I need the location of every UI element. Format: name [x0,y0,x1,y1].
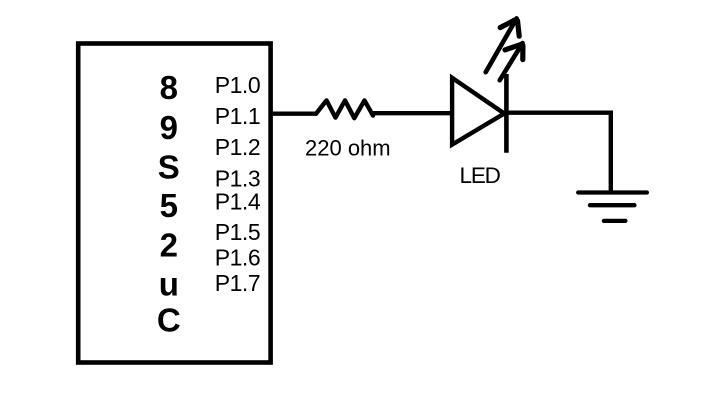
svg-text:S: S [158,148,180,185]
pin label P1.6 [215,245,260,271]
pin label P1.4 [215,189,261,215]
LED D1 anode triangle [452,78,504,145]
svg-text:P1.0: P1.0 [215,72,260,98]
LED light-emission arrow 2 (lower) [500,43,523,80]
svg-text:u: u [159,266,179,303]
pin label P1.7 [215,270,260,296]
pin label P1.5 [215,219,260,245]
svg-text:P1.2: P1.2 [215,134,260,160]
svg-text:P1.5: P1.5 [215,219,260,245]
svg-text:C: C [157,302,181,339]
svg-text:P1.7: P1.7 [215,270,260,296]
ground symbol (three bars) [578,193,647,221]
value label 220 ohm [305,135,391,160]
wire: corner down to ground (vertical) [609,111,613,193]
label 89S52uC (IC name, vertical column) [157,69,181,339]
svg-text:8: 8 [160,69,178,106]
svg-text:220 ohm: 220 ohm [305,135,391,160]
pin label P1.1 [215,103,260,129]
svg-text:5: 5 [160,187,178,224]
pin label P1.3 [215,166,260,192]
pin label P1.2 [215,134,260,160]
LED light-emission arrow 1 (upper) [486,18,520,72]
svg-text:P1.6: P1.6 [215,245,260,271]
svg-text:2: 2 [160,227,178,264]
svg-text:9: 9 [160,109,178,146]
wire: LED cathode to corner (horizontal) [506,110,613,114]
IC U1 89S52 microcontroller box [78,44,270,363]
svg-text:LED: LED [460,163,501,188]
LED D1 cathode bar [504,74,509,153]
wire: P1.1 pin to resistor left lead [273,111,317,115]
resistor R1 220 ohm (zigzag) [316,100,373,118]
svg-text:P1.1: P1.1 [215,103,260,129]
label LED [460,163,501,188]
pin label P1.0 [215,72,260,98]
wire: resistor right lead to LED anode [372,111,453,115]
svg-text:P1.4: P1.4 [215,189,261,215]
svg-text:P1.3: P1.3 [215,166,260,192]
